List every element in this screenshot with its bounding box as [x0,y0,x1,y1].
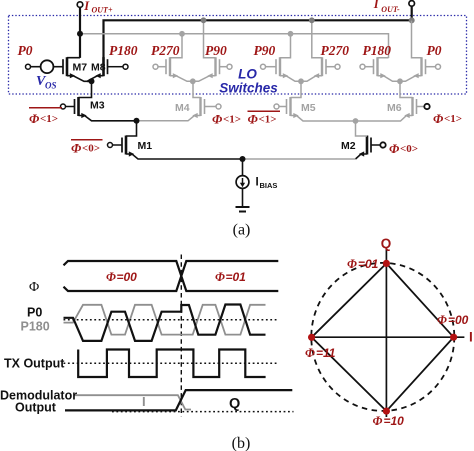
svg-text:P270: P270 [151,43,180,58]
svg-text:I: I [469,330,473,345]
svg-text:M7: M7 [73,62,88,74]
transistor pair2-left P270 [153,34,193,82]
svg-text:Φ: Φ [215,270,225,284]
constellation diamond edges [312,263,454,411]
svg-text:Φ: Φ [433,111,444,126]
wire negative output rail [104,20,412,57]
svg-text:P0: P0 [427,43,442,58]
svg-text:Φ: Φ [248,112,259,127]
label V_OS [36,74,57,91]
label M7 [73,62,88,74]
svg-text:Φ: Φ [389,141,400,156]
svg-text:P0: P0 [18,43,33,58]
waveform demodulator Q (black) [65,390,292,410]
dotted midline P0/P180 row [64,319,278,321]
label P180 row [21,320,50,334]
svg-text:I: I [256,176,259,188]
svg-text:=01: =01 [358,257,379,271]
transistor M2 [356,121,386,159]
waveform TX Output [78,350,265,378]
transistor M6 (gray) [356,81,430,121]
label phi<1> bar (M3 gate) [29,108,62,126]
node PHI=11 point [308,334,315,341]
svg-text:M6: M6 [387,102,402,114]
svg-text:Switches: Switches [219,81,278,96]
junction IOUT+ rail [77,31,83,37]
label P0 row [27,306,42,320]
label I_OUT- [373,0,400,14]
svg-text:M1: M1 [138,140,153,152]
junction IOUT- rail end [409,17,415,23]
label P90 (pair3 left) [254,43,276,58]
node IOUT+ output terminal and vertical wire [77,2,83,58]
label Output [15,400,57,414]
label I_BIAS [256,176,278,190]
svg-text:Output: Output [15,400,57,414]
junction pair2 drain on + rail [179,31,185,37]
svg-text:BIAS: BIAS [260,181,278,190]
node IOUT- output terminal and vertical wire [409,1,415,21]
svg-text:Q: Q [381,236,392,251]
svg-text:I: I [142,394,146,409]
svg-text:Φ: Φ [437,313,447,327]
label P180 (pair4 left) [363,43,392,58]
svg-text:(b): (b) [232,435,251,451]
label phi<1> bar (M5 gate) [248,111,281,126]
label (b) [232,435,251,451]
svg-text:<0>: <0> [82,143,100,155]
transistor M5 (gray) [274,81,356,121]
svg-text:P0: P0 [27,306,42,320]
junction M5/M6 sources to M2 drain [353,118,359,124]
label M3 [90,100,105,112]
svg-text:(a): (a) [233,222,251,239]
svg-text:=11: =11 [316,346,336,360]
label P0 (pair1 left) [18,43,33,58]
svg-text:Φ: Φ [305,346,315,360]
svg-text:M8: M8 [91,62,106,74]
svg-text:I: I [83,0,90,13]
constellation Q axis (vertical) [385,249,387,417]
label I (gray) [142,394,146,409]
transistor M7 [53,57,91,81]
svg-text:Φ: Φ [29,280,39,295]
input terminal P0 [26,64,31,69]
node PHI=01 point [383,260,390,267]
junction pair2 source [190,78,196,84]
label I_OUT+ [83,0,113,14]
label PHI=00 point [437,313,469,327]
svg-text:P180: P180 [363,43,392,58]
label P270 (pair3 right) [321,43,350,58]
ground [236,207,250,212]
svg-text:Φ: Φ [347,257,357,271]
svg-text:OUT-: OUT- [381,5,400,14]
wire positive output rail (gray) [80,34,389,58]
label TX Output row [4,357,65,371]
svg-text:M2: M2 [341,140,356,152]
LO switches dashed selection box [9,16,467,95]
svg-text:<0>: <0> [400,143,418,155]
svg-text:=00: =00 [448,313,469,327]
svg-text:I: I [373,0,380,11]
label PHI row [29,280,39,295]
dashed phase-change marker line [180,255,182,417]
junction M3/M4 sources to M1 drain [134,118,140,124]
junction pair4 source [397,78,403,84]
waveform demodulator I (gray) [75,395,192,409]
svg-text:TX Output: TX Output [4,357,65,371]
svg-text:P90: P90 [254,43,276,58]
transistor pair2-right P90 [193,20,232,81]
node PHI=00 point [450,334,457,341]
transistor M3 [61,81,137,121]
label PHI=01 [215,270,246,284]
svg-text:OUT+: OUT+ [92,5,113,14]
svg-text:Φ: Φ [106,270,116,284]
waveform PHI high/low rails with X transition [64,261,279,291]
label (a) [233,222,251,239]
svg-text:P180: P180 [109,43,138,58]
junction pair3 drain on - rail [309,17,315,23]
svg-text:P180: P180 [21,320,50,334]
svg-text:LO: LO [238,67,257,82]
svg-text:M3: M3 [90,100,105,112]
dotted midline TX row [64,362,278,364]
label M2 [341,140,356,152]
svg-text:Φ: Φ [29,111,40,126]
label PHI=10 point [373,414,405,428]
junction pair3 drain on + rail [288,31,294,37]
label LO Switches [219,67,278,96]
svg-text:P90: P90 [205,43,227,58]
label phi<1> (M4 gate) [212,112,241,127]
transistor pair3-left P90 [261,34,302,82]
junction pair2 drain on - rail [201,17,207,23]
label M5 [301,102,316,114]
label M6 [387,102,402,114]
svg-text:M4: M4 [175,102,190,114]
transistor pair3-right P270 [301,20,340,81]
transistor M1 [108,121,243,159]
svg-text:P270: P270 [321,43,350,58]
label P270 (pair2 left) [151,43,180,58]
label M1 [138,140,153,152]
label P180 (pair1 right) [109,43,138,58]
dotted midline demodulator row [112,411,294,413]
label phi<0> bar (M1 gate) [71,140,103,156]
label phi<0> (M2 gate) [389,141,418,156]
label I axis [469,330,473,345]
svg-text:=01: =01 [226,270,247,284]
current source IBIAS [236,159,249,207]
label PHI=11 point [305,346,336,360]
label M8 [91,62,106,74]
offset source V_OS [31,60,54,73]
constellation dashed circle [311,263,454,411]
label Q axis [381,236,392,251]
label P0 (pair4 right) [427,43,442,58]
waveform P0 (black LO phase) [64,305,266,341]
label M4 [175,102,190,114]
label PHI=00 [106,270,137,284]
svg-text:Φ: Φ [373,414,383,428]
label phi<1> (M6 gate) [433,111,462,126]
svg-text:<1>: <1> [223,114,241,126]
svg-text:=00: =00 [117,270,138,284]
waveform P180 (gray LO phase) [64,305,266,335]
wire M2 source to tail (gray) [243,158,356,160]
junction pair3 source [298,78,304,84]
junction tail node [240,156,246,162]
transistor M4 (gray) [137,81,222,121]
label P90 (pair2 right) [205,43,227,58]
constellation I axis (horizontal) [312,336,465,338]
svg-text:Q: Q [229,396,240,412]
svg-text:<1>: <1> [444,113,462,125]
transistor pair4-left P180 [360,57,400,81]
label Demodulator [0,389,77,403]
svg-text:OS: OS [45,81,57,91]
svg-text:=10: =10 [384,414,405,428]
node PHI=10 point [383,408,390,415]
transistor M8 [87,57,128,81]
svg-text:Φ: Φ [71,141,82,156]
transistor pair4-right P0 [400,21,441,82]
label PHI=01 point [347,257,379,271]
svg-text:<1>: <1> [40,113,58,125]
svg-text:Φ: Φ [212,112,223,127]
svg-text:<1>: <1> [259,114,277,126]
svg-text:M5: M5 [301,102,316,114]
label Q [229,396,240,412]
junction M7/M8 common source [89,78,95,84]
